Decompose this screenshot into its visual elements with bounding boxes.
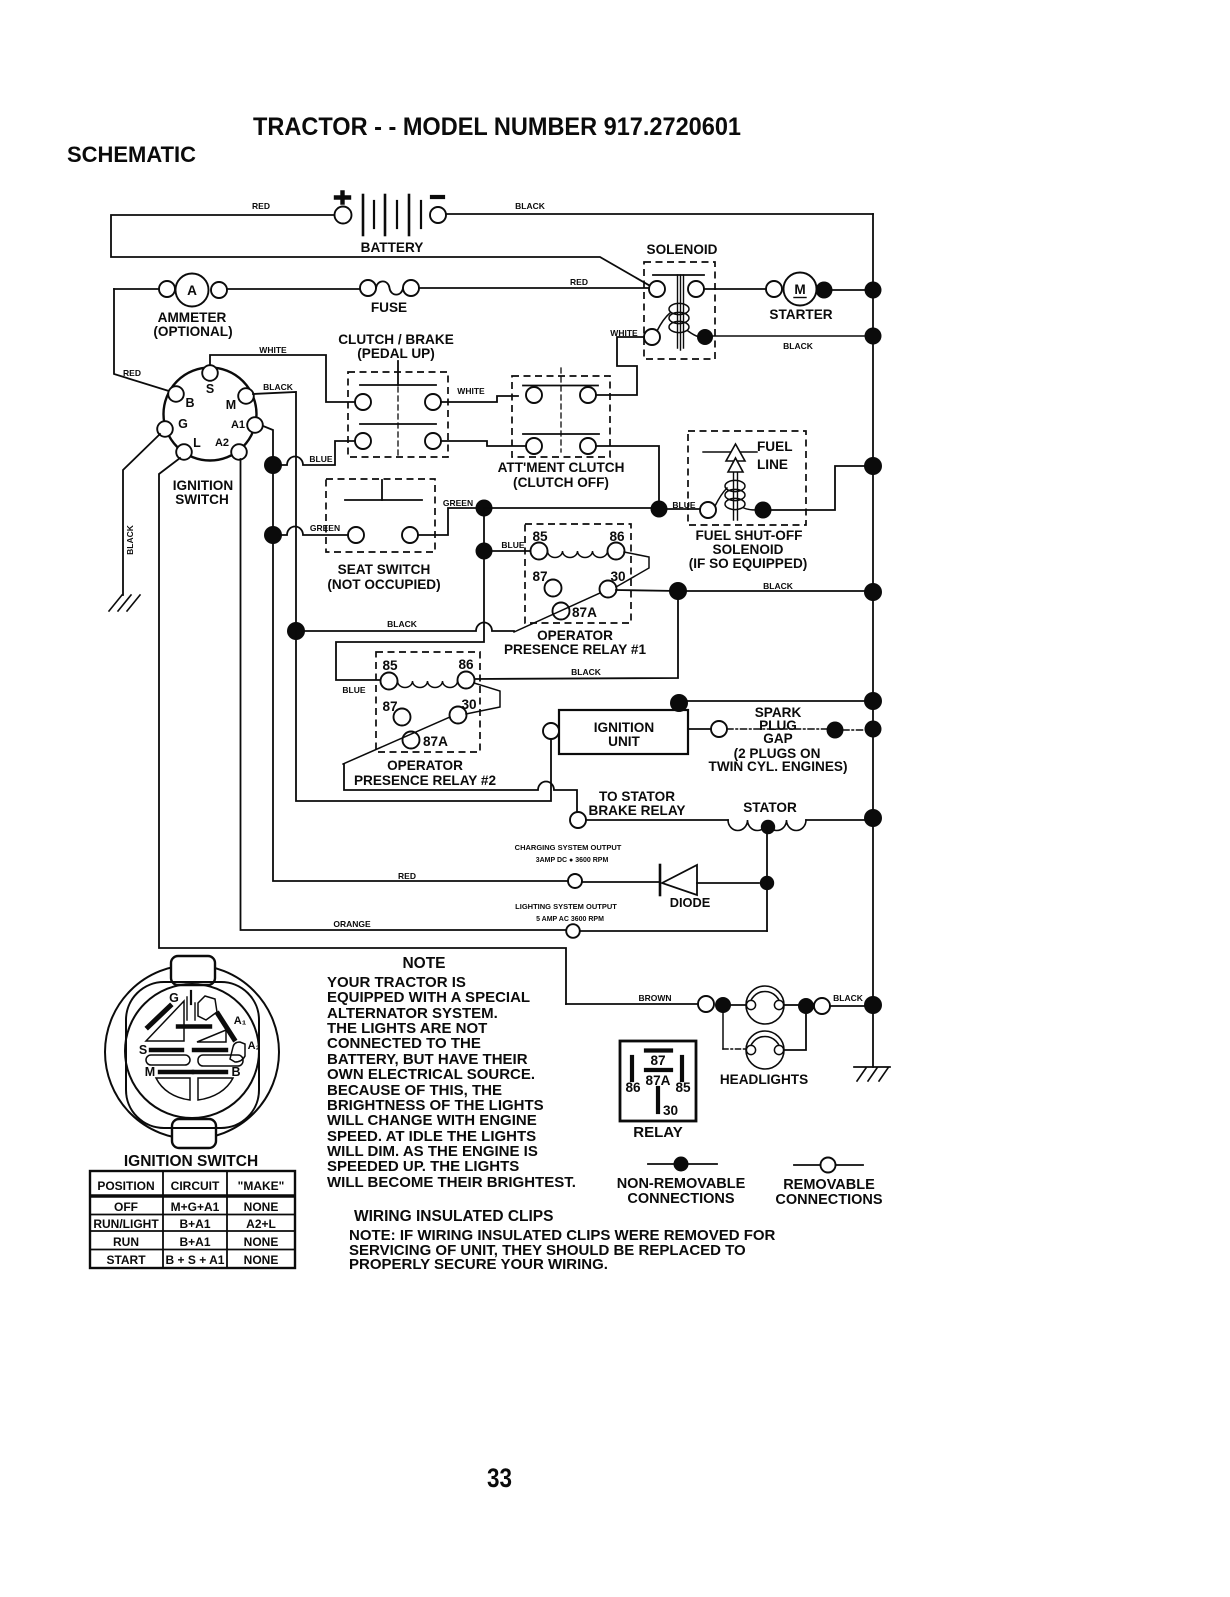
wire starter to bus	[832, 289, 865, 291]
svg-text:HEADLIGHTS: HEADLIGHTS	[720, 1072, 808, 1087]
headlight 2	[746, 1031, 784, 1069]
svg-text:RELAY: RELAY	[633, 1124, 682, 1141]
svg-text:RED: RED	[570, 277, 588, 287]
svg-text:(IF SO EQUIPPED): (IF SO EQUIPPED)	[689, 556, 808, 571]
wire A2 orange down	[241, 459, 567, 930]
wire dot to headlight1	[731, 1004, 747, 1006]
svg-text:"MAKE": "MAKE"	[238, 1179, 285, 1193]
svg-text:M: M	[794, 282, 805, 297]
svg-text:87: 87	[532, 569, 547, 584]
svg-text:87A: 87A	[572, 605, 597, 620]
svg-text:87A: 87A	[423, 734, 448, 749]
svg-text:FUSE: FUSE	[371, 300, 407, 315]
svg-text:CHARGING SYSTEM OUTPUT: CHARGING SYSTEM OUTPUT	[515, 843, 622, 852]
wire black M to ignition unit	[296, 631, 551, 801]
svg-text:(PEDAL UP): (PEDAL UP)	[357, 346, 435, 361]
junction dot green node	[476, 500, 493, 517]
wire lighting to junction	[580, 930, 767, 932]
wire diode to stator junction	[697, 882, 759, 884]
svg-text:DIODE: DIODE	[670, 895, 711, 910]
wire ammeter to fuse	[227, 288, 360, 290]
wire ammeter feed	[114, 288, 160, 290]
wire fuel solenoid to bus	[771, 466, 865, 510]
note body	[327, 974, 576, 1191]
svg-text:NON-REMOVABLE: NON-REMOVABLE	[617, 1176, 746, 1192]
svg-text:ORANGE: ORANGE	[333, 919, 371, 929]
svg-text:NONE: NONE	[244, 1235, 279, 1249]
svg-text:RUN/LIGHT: RUN/LIGHT	[93, 1217, 159, 1231]
svg-text:(NOT OCCUPIED): (NOT OCCUPIED)	[327, 577, 440, 592]
svg-text:G: G	[169, 991, 179, 1005]
legend removable	[775, 1158, 882, 1209]
svg-text:BLUE: BLUE	[342, 685, 365, 695]
wire green to seat switch	[281, 527, 348, 536]
svg-text:87: 87	[650, 1053, 665, 1068]
wire relay2 armature to brake relay	[344, 764, 577, 812]
svg-text:CIRCUIT: CIRCUIT	[171, 1179, 220, 1193]
svg-text:B: B	[185, 396, 194, 410]
terminal circle charging output	[568, 874, 582, 888]
stator coil	[728, 800, 806, 831]
terminal circle to stator brake relay	[570, 812, 586, 828]
junction dot bus stator	[864, 809, 882, 827]
wire blue node to relay1 85	[492, 550, 531, 552]
svg-text:OPERATOR: OPERATOR	[387, 758, 463, 773]
svg-text:L: L	[193, 436, 201, 450]
svg-text:BLACK: BLACK	[125, 524, 135, 555]
junction dot ignition unit top	[670, 694, 688, 712]
svg-text:SOLENOID: SOLENOID	[713, 542, 784, 557]
svg-text:PRESENCE RELAY #2: PRESENCE RELAY #2	[354, 773, 496, 788]
junction dot headlight left	[715, 997, 731, 1013]
label TO STATOR BRAKE RELAY	[589, 789, 686, 818]
operator presence relay 1	[504, 524, 649, 657]
svg-text:3AMP DC ● 3600 RPM: 3AMP DC ● 3600 RPM	[536, 857, 609, 864]
junction dot A1 green	[264, 526, 282, 544]
wire spark dot to bus	[843, 729, 864, 731]
svg-text:BRAKE RELAY: BRAKE RELAY	[589, 803, 686, 818]
svg-text:CONNECTIONS: CONNECTIONS	[627, 1191, 734, 1207]
wire G to ground	[123, 434, 160, 595]
solenoid K1	[644, 242, 718, 359]
svg-text:CLUTCH / BRAKE: CLUTCH / BRAKE	[338, 332, 454, 347]
fuel shut-off solenoid	[688, 431, 807, 571]
ground right	[854, 1067, 890, 1081]
svg-text:30: 30	[663, 1103, 678, 1118]
junction dot diode	[760, 876, 774, 890]
svg-text:AMMETER: AMMETER	[158, 310, 227, 325]
wiring clips note	[349, 1227, 776, 1273]
svg-text:RED: RED	[252, 201, 270, 211]
svg-text:BLACK: BLACK	[783, 341, 814, 351]
wire brake relay to stator	[586, 819, 728, 821]
svg-text:EQUIPPED WITH A SPECIAL: EQUIPPED WITH A SPECIAL	[327, 989, 530, 1006]
svg-text:33: 33	[487, 1463, 512, 1493]
junction dot M black	[287, 622, 305, 640]
wire headlight1 to dot right	[784, 1004, 798, 1006]
ignition switch (schematic)	[157, 365, 263, 507]
svg-text:BROWN: BROWN	[638, 993, 671, 1003]
svg-text:A: A	[187, 283, 197, 298]
junction dot relay1 30	[669, 582, 687, 600]
svg-text:LIGHTING SYSTEM OUTPUT: LIGHTING SYSTEM OUTPUT	[515, 902, 617, 911]
svg-text:TRACTOR - - MODEL NUMBER 917.: TRACTOR - - MODEL NUMBER 917.2720601	[253, 113, 741, 141]
wire solenoid black to bus	[713, 335, 864, 337]
svg-text:M+G+A1: M+G+A1	[171, 1200, 220, 1214]
terminal circle headlight left	[698, 996, 714, 1012]
wire headlight right to bus	[830, 1005, 864, 1007]
svg-text:M: M	[226, 398, 236, 412]
wire blue node down to relay2 85	[336, 559, 484, 680]
wire ignition unit right to spark	[688, 728, 711, 730]
wire M black down	[253, 392, 296, 631]
junction dot fuel node	[651, 501, 668, 518]
svg-text:(OPTIONAL): (OPTIONAL)	[153, 324, 232, 339]
svg-text:GAP: GAP	[763, 731, 792, 746]
attachment clutch switch	[498, 368, 625, 490]
svg-text:B + S + A1: B + S + A1	[166, 1253, 225, 1267]
label charging system output	[515, 843, 622, 864]
svg-text:NOTE: NOTE	[402, 955, 445, 972]
svg-text:B+A1: B+A1	[179, 1235, 210, 1249]
wire battery plus to solenoid (red)	[111, 215, 652, 287]
svg-text:(CLUTCH OFF): (CLUTCH OFF)	[513, 475, 609, 490]
wire relay1 30 to bus	[616, 590, 864, 591]
svg-text:RUN: RUN	[113, 1235, 139, 1249]
terminal circle spark	[711, 721, 727, 737]
svg-text:NONE: NONE	[244, 1253, 279, 1267]
svg-text:NONE: NONE	[244, 1200, 279, 1214]
svg-text:WHITE: WHITE	[457, 386, 485, 396]
svg-text:B: B	[231, 1065, 240, 1079]
wire green node to fuel node	[484, 508, 659, 509]
svg-text:GREEN: GREEN	[310, 523, 340, 533]
relay pinout	[620, 1041, 696, 1141]
svg-text:STARTER: STARTER	[769, 307, 832, 322]
wire seat switch to green node	[418, 508, 478, 535]
wire solenoid to starter	[704, 288, 766, 290]
wire attachment lower right down to fuel node	[596, 446, 659, 503]
wire S white to clutch brake	[210, 355, 355, 402]
svg-text:85: 85	[675, 1080, 691, 1095]
wire green-blue vertical	[483, 508, 485, 551]
wire blue to clutch brake lower left	[281, 441, 355, 465]
svg-text:FUEL: FUEL	[757, 439, 793, 454]
svg-text:UNIT: UNIT	[608, 734, 640, 749]
wire spark gap	[727, 728, 827, 730]
svg-text:BLACK: BLACK	[833, 993, 864, 1003]
junction dot spark	[827, 722, 844, 739]
svg-text:CONNECTIONS: CONNECTIONS	[775, 1192, 882, 1208]
terminal circle lighting output	[566, 924, 580, 938]
svg-text:REMOVABLE: REMOVABLE	[783, 1177, 875, 1193]
svg-text:TWIN CYL. ENGINES): TWIN CYL. ENGINES)	[709, 759, 848, 774]
wire red ammeter down to B terminal	[114, 289, 172, 392]
svg-text:CONNECTED TO THE: CONNECTED TO THE	[327, 1035, 481, 1052]
svg-text:85: 85	[382, 658, 398, 673]
svg-text:SEAT SWITCH: SEAT SWITCH	[338, 562, 431, 577]
svg-text:SWITCH: SWITCH	[175, 492, 229, 507]
wire charging to diode	[582, 881, 659, 883]
wire A1 down (blue/green/red feed)	[263, 426, 567, 881]
svg-text:B+A1: B+A1	[179, 1217, 210, 1231]
svg-text:S: S	[206, 382, 214, 396]
svg-text:A2: A2	[215, 437, 229, 449]
svg-text:WHITE: WHITE	[259, 345, 287, 355]
wire ignition unit top to bus	[688, 700, 864, 702]
label spark plug gap	[709, 705, 848, 774]
wire white solenoid to attachment clutch	[596, 337, 644, 395]
ignition unit	[543, 710, 688, 754]
wire clutch to attachment upper white	[441, 396, 518, 402]
wire right bus vertical	[872, 214, 874, 1067]
wire headlight2 left branch	[722, 1013, 724, 1049]
headlight 1	[746, 986, 784, 1024]
svg-text:M: M	[145, 1065, 155, 1079]
svg-text:IGNITION: IGNITION	[594, 720, 654, 735]
junction dot headlight right	[798, 998, 814, 1014]
ignition switch connector drawing	[105, 956, 279, 1148]
wire fuse to solenoid	[419, 287, 649, 289]
svg-text:GREEN: GREEN	[443, 498, 473, 508]
terminal circle headlight right	[814, 998, 830, 1014]
wire headlight2 right branch	[784, 1014, 806, 1050]
svg-text:RED: RED	[123, 368, 141, 378]
svg-text:A1: A1	[231, 419, 245, 431]
junction dot bus black2	[864, 583, 882, 601]
svg-text:POSITION: POSITION	[97, 1179, 154, 1193]
svg-text:A2+L: A2+L	[246, 1217, 276, 1231]
junction dot blue relay1	[476, 543, 493, 560]
junction dot bus ignition	[864, 692, 882, 710]
svg-text:BLUE: BLUE	[501, 540, 524, 550]
ammeter A	[153, 274, 232, 340]
wire stator to bus	[806, 819, 864, 821]
junction dot bus spark	[865, 721, 882, 738]
wire brown to headlights	[566, 1003, 698, 1005]
svg-text:BATTERY: BATTERY	[361, 240, 424, 255]
svg-text:ATT'MENT CLUTCH: ATT'MENT CLUTCH	[498, 460, 625, 475]
diode D1	[660, 865, 711, 910]
svg-text:86: 86	[625, 1080, 641, 1095]
svg-text:SPEEDED UP. THE LIGHTS: SPEEDED UP. THE LIGHTS	[327, 1158, 519, 1175]
operator presence relay 2	[343, 652, 500, 788]
svg-text:BLUE: BLUE	[309, 454, 332, 464]
wire L to headlights brown	[159, 458, 566, 1004]
junction dot A1 blue	[264, 456, 282, 474]
svg-text:BLACK: BLACK	[763, 581, 794, 591]
svg-text:LINE: LINE	[757, 457, 788, 472]
svg-text:IGNITION: IGNITION	[173, 478, 233, 493]
svg-text:A₁: A₁	[234, 1015, 247, 1027]
svg-text:OPERATOR: OPERATOR	[537, 628, 613, 643]
svg-text:PROPERLY SECURE YOUR WIRING.: PROPERLY SECURE YOUR WIRING.	[349, 1256, 608, 1273]
svg-text:BLACK: BLACK	[263, 382, 294, 392]
svg-text:5 AMP AC 3600 RPM: 5 AMP AC 3600 RPM	[536, 916, 604, 923]
svg-text:86: 86	[458, 657, 474, 672]
svg-text:87A: 87A	[646, 1073, 671, 1088]
wire battery minus to right bus top	[447, 213, 873, 215]
svg-text:RED: RED	[398, 871, 416, 881]
legend non-removable	[617, 1157, 746, 1208]
svg-text:OFF: OFF	[114, 1200, 138, 1214]
junction dot bus at starter	[865, 282, 882, 299]
clutch brake switch	[338, 332, 454, 457]
wire relay1-30 down to relay2 86	[474, 599, 678, 679]
svg-text:S: S	[139, 1043, 147, 1057]
junction dot stator center	[761, 820, 775, 834]
ground left	[109, 595, 140, 611]
svg-text:IGNITION SWITCH: IGNITION SWITCH	[124, 1153, 258, 1170]
svg-text:G: G	[178, 417, 188, 431]
svg-text:PRESENCE RELAY #1: PRESENCE RELAY #1	[504, 642, 646, 657]
svg-text:OWN ELECTRICAL SOURCE.: OWN ELECTRICAL SOURCE.	[327, 1066, 535, 1083]
svg-text:TO STATOR: TO STATOR	[599, 789, 675, 804]
wire black M-dot to relay1 armature	[304, 623, 514, 631]
seat switch	[326, 479, 441, 592]
svg-text:SCHEMATIC: SCHEMATIC	[67, 142, 196, 167]
svg-text:SOLENOID: SOLENOID	[647, 242, 718, 257]
svg-text:WILL CHANGE WITH ENGINE: WILL CHANGE WITH ENGINE	[327, 1112, 537, 1129]
starter motor M	[766, 273, 833, 323]
svg-text:FUEL SHUT-OFF: FUEL SHUT-OFF	[696, 528, 803, 543]
junction dot bus black	[865, 328, 882, 345]
svg-text:BLACK: BLACK	[387, 619, 418, 629]
wire clutch to attachment lower	[441, 441, 526, 446]
table ignition switch	[90, 1171, 295, 1268]
junction dot starter	[816, 282, 833, 299]
label lighting system output	[515, 902, 617, 923]
svg-text:WIRING INSULATED CLIPS: WIRING INSULATED CLIPS	[354, 1208, 554, 1225]
svg-text:WILL BECOME THEIR BRIGHTEST.: WILL BECOME THEIR BRIGHTEST.	[327, 1174, 576, 1191]
battery B1	[335, 193, 447, 256]
svg-text:BLACK: BLACK	[515, 201, 546, 211]
svg-text:START: START	[106, 1253, 146, 1267]
svg-text:A₂: A₂	[248, 1040, 261, 1052]
wire fuel node to fuel solenoid	[667, 508, 700, 510]
junction dot bus fuel	[864, 457, 882, 475]
wire stator center to lighting	[766, 827, 768, 931]
fuse F1	[360, 280, 419, 315]
svg-text:BLACK: BLACK	[571, 667, 602, 677]
junction dot bus headlights	[864, 996, 882, 1014]
svg-text:STATOR: STATOR	[743, 800, 797, 815]
